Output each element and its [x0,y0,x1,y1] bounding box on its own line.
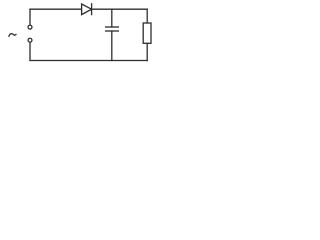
wire top rail (anode side) [30,8,82,10]
capacitor C1 top lead [111,9,113,27]
ac source terminal bottom [28,38,32,42]
wire top rail (cathode side) [92,8,148,10]
capacitor C1 top plate [106,26,119,28]
ac source terminal top [28,25,32,29]
capacitor C1 bottom lead [111,31,113,61]
wire top-left vertical to source [29,9,31,25]
resistor R1 body [143,23,151,43]
resistor R1 bottom lead [146,43,148,60]
diode D1 cathode bar [91,4,93,15]
capacitor C1 bottom plate [106,30,119,32]
wire bottom rail [30,60,147,62]
diode D1 triangle (anode) [82,4,92,15]
ac source symbol ~ [9,34,16,37]
resistor R1 top lead [146,9,148,23]
wire bottom-left vertical from source [29,42,31,60]
